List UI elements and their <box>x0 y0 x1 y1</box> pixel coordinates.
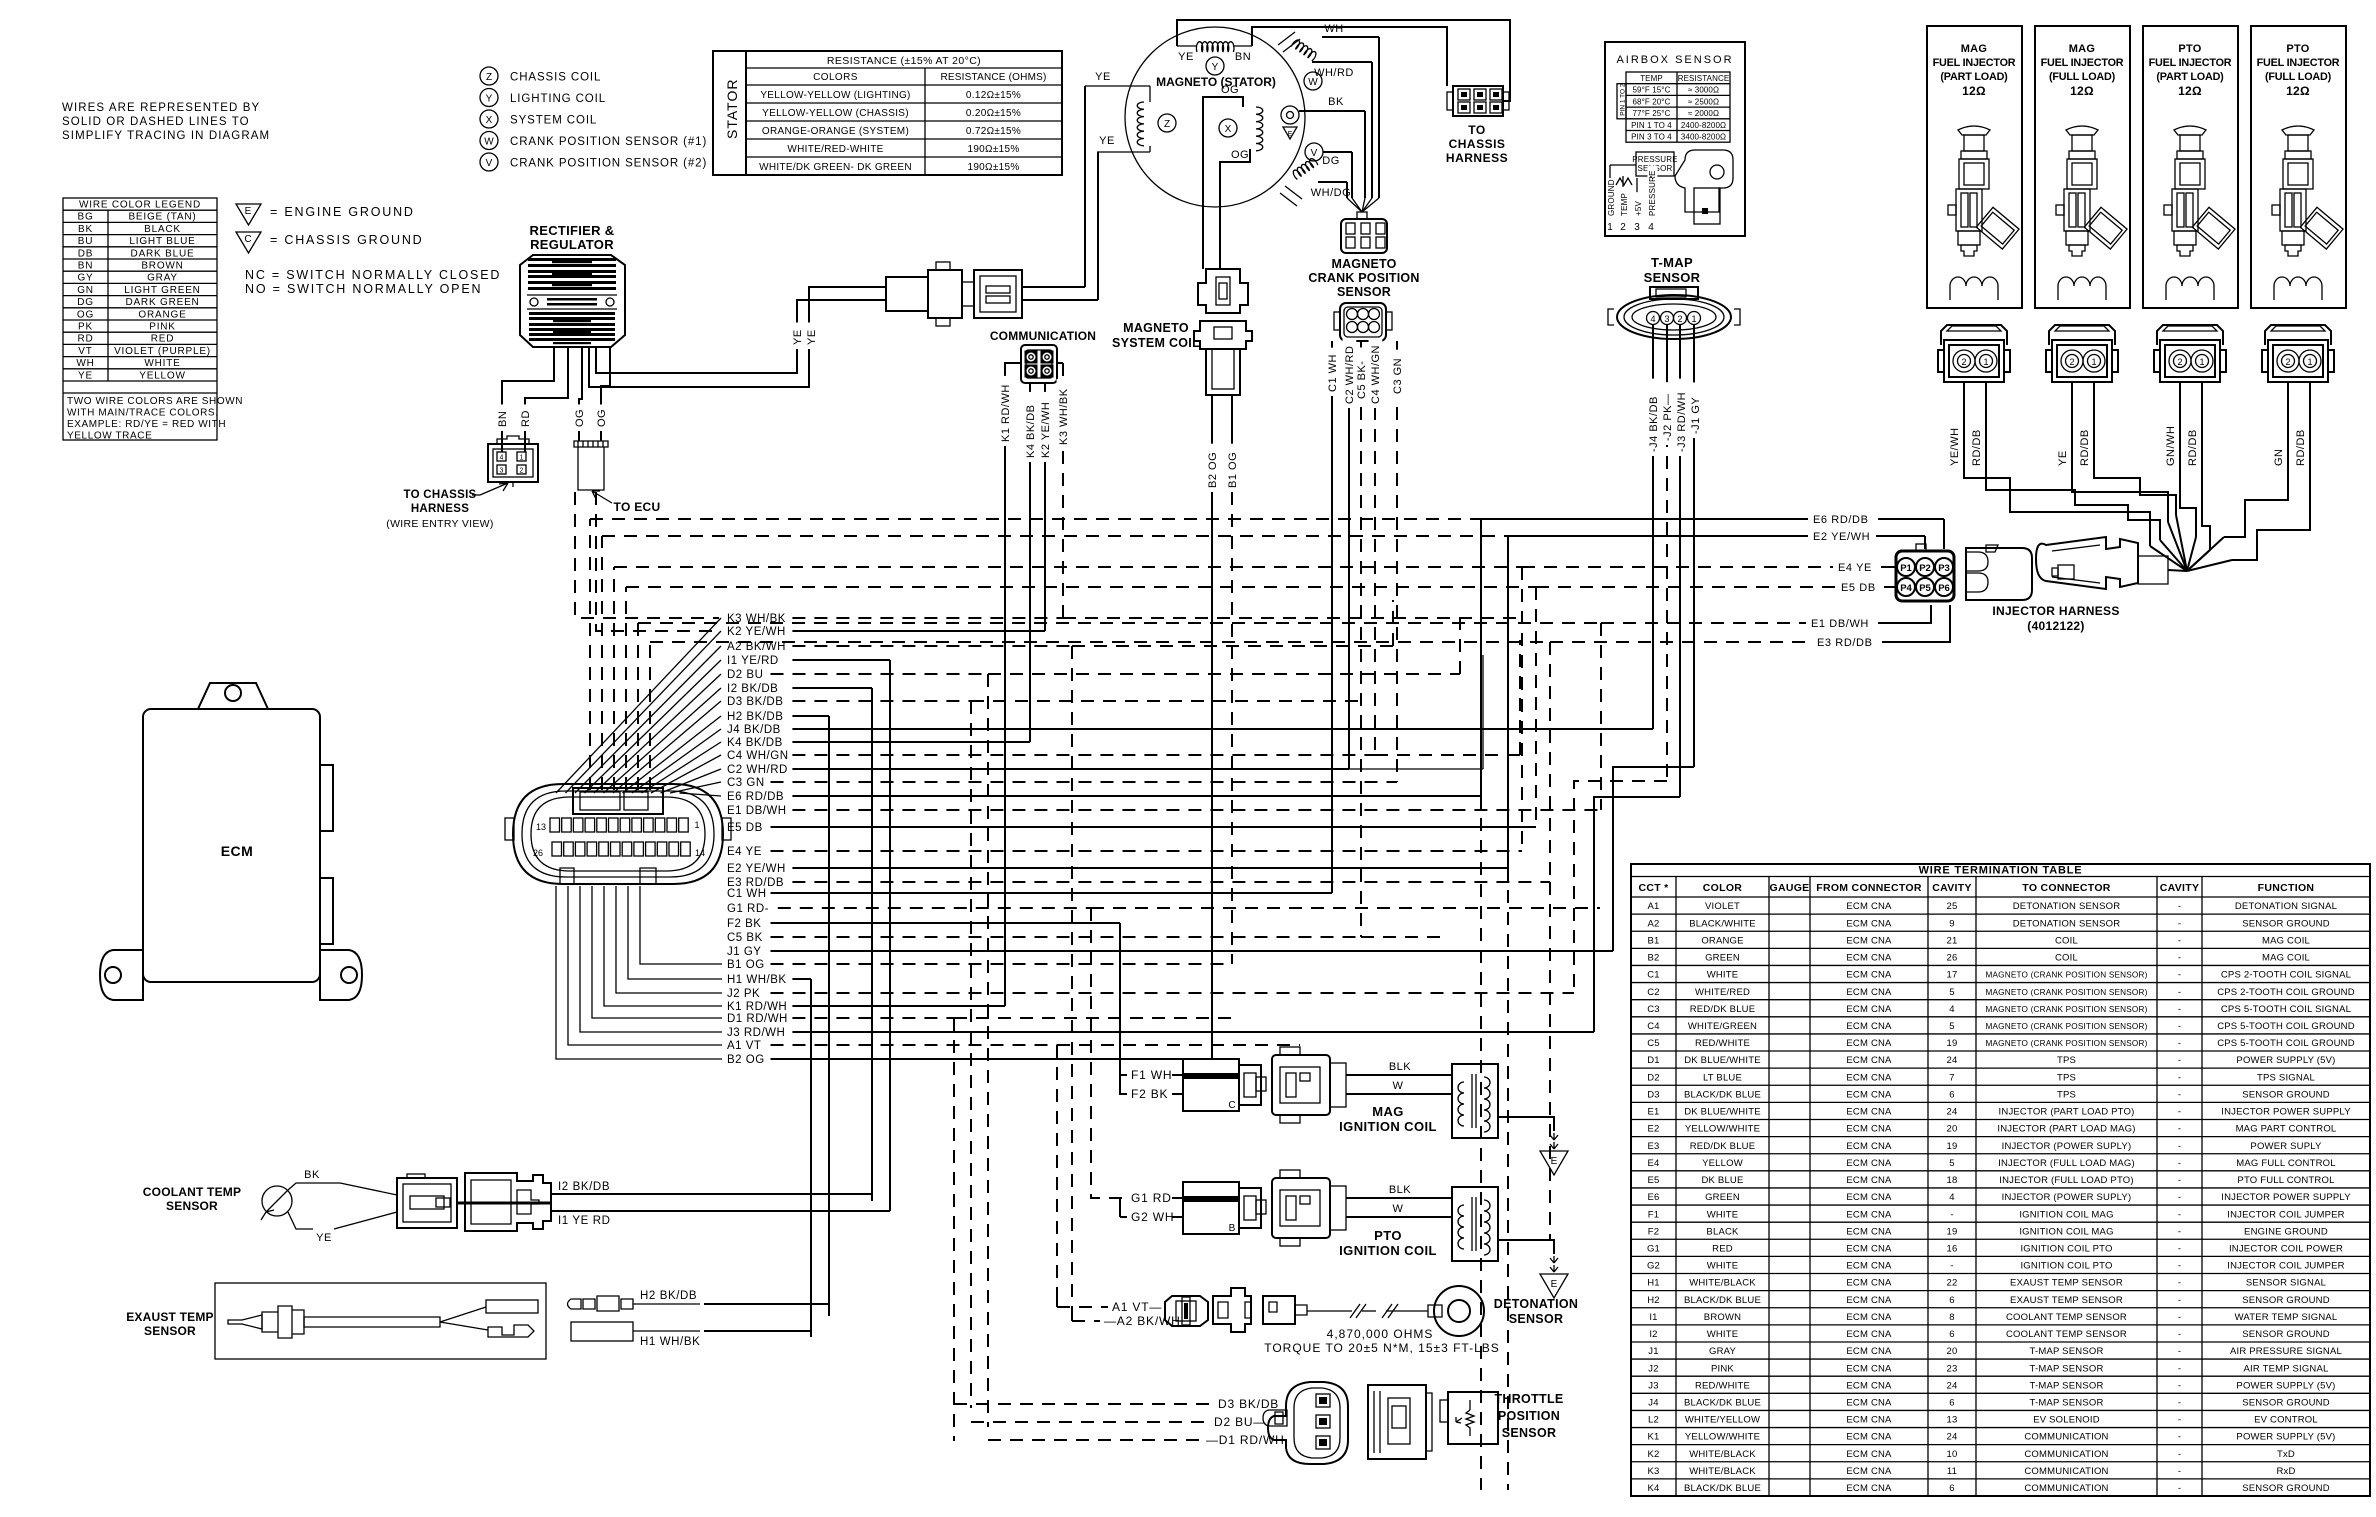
svg-text:POSITION: POSITION <box>1498 1409 1560 1423</box>
harness fan <box>2168 570 2187 571</box>
svg-text:DG: DG <box>1322 155 1340 167</box>
svg-text:2: 2 <box>2285 357 2290 367</box>
svg-text:WHITE/GREEN: WHITE/GREEN <box>1688 1021 1757 1032</box>
svg-text:TWO WIRE COLORS ARE SHOWN: TWO WIRE COLORS ARE SHOWN <box>67 396 243 407</box>
svg-text:5: 5 <box>1949 1158 1954 1169</box>
svg-text:≈ 2500Ω: ≈ 2500Ω <box>1688 97 1719 106</box>
svg-text:GRAY: GRAY <box>1709 1346 1736 1357</box>
svg-text:TO: TO <box>1468 123 1485 137</box>
svg-text:INJECTOR (FULL LOAD PTO): INJECTOR (FULL LOAD PTO) <box>1999 1175 2133 1186</box>
svg-text:OG: OG <box>574 409 586 427</box>
svg-text:J2 PK: J2 PK <box>727 988 760 1000</box>
svg-text:E5 DB: E5 DB <box>1841 582 1876 594</box>
svg-text:PINK: PINK <box>1711 1363 1734 1374</box>
svg-text:SYSTEM COIL: SYSTEM COIL <box>510 115 597 127</box>
svg-text:PTO: PTO <box>1374 1228 1402 1243</box>
svg-text:D2 BU—: D2 BU— <box>1214 1415 1266 1429</box>
svg-text:AIR TEMP SIGNAL: AIR TEMP SIGNAL <box>2243 1363 2328 1374</box>
svg-text:-: - <box>2178 1021 2181 1032</box>
svg-text:INJECTOR (PART LOAD MAG): INJECTOR (PART LOAD MAG) <box>1997 1124 2135 1135</box>
svg-text:ECM CNA: ECM CNA <box>1846 1209 1892 1220</box>
svg-text:8: 8 <box>1949 1312 1954 1323</box>
svg-text:C3 GN: C3 GN <box>727 777 765 789</box>
svg-text:PIN 3 TO 4: PIN 3 TO 4 <box>1631 133 1672 142</box>
svg-text:G1 RD: G1 RD <box>1131 1191 1172 1205</box>
svg-text:C2 WH/RD: C2 WH/RD <box>727 764 788 776</box>
svg-text:IGNITION COIL MAG: IGNITION COIL MAG <box>2019 1209 2113 1220</box>
svg-text:4,870,000 OHMS: 4,870,000 OHMS <box>1327 1327 1434 1341</box>
svg-text:RD/DB: RD/DB <box>2295 429 2307 466</box>
svg-text:BN: BN <box>78 261 94 272</box>
svg-text:I1: I1 <box>1649 1312 1657 1323</box>
svg-text:26: 26 <box>533 848 543 858</box>
svg-text:24: 24 <box>1947 1107 1958 1118</box>
svg-text:SENSOR: SENSOR <box>1337 285 1391 299</box>
svg-text:POWER SUPPLY (5V): POWER SUPPLY (5V) <box>2236 1055 2335 1066</box>
svg-text:-: - <box>2178 1226 2181 1237</box>
svg-text:RED/DK BLUE: RED/DK BLUE <box>1690 1004 1756 1015</box>
svg-text:LIGHTING COIL: LIGHTING COIL <box>510 93 606 105</box>
svg-text:(PART LOAD): (PART LOAD) <box>2156 71 2224 83</box>
svg-text:C4 WH/GN: C4 WH/GN <box>1370 345 1382 404</box>
svg-text:2400-8200Ω: 2400-8200Ω <box>1681 121 1726 130</box>
svg-text:B1 OG: B1 OG <box>727 959 765 971</box>
ECM box <box>143 709 320 982</box>
svg-text:J3 RD/WH: J3 RD/WH <box>727 1027 785 1039</box>
svg-text:BROWN: BROWN <box>141 261 183 272</box>
svg-text:FUNCTION: FUNCTION <box>2258 882 2315 894</box>
svg-text:EXAMPLE: RD/YE = RED WITH: EXAMPLE: RD/YE = RED WITH <box>67 419 226 430</box>
svg-text:STATOR: STATOR <box>724 79 740 139</box>
svg-text:IGNITION COIL PTO: IGNITION COIL PTO <box>2020 1243 2112 1254</box>
svg-text:-: - <box>1950 1261 1953 1272</box>
svg-text:D2 BU: D2 BU <box>727 669 763 681</box>
detonation sensor <box>1056 1300 1058 1307</box>
svg-text:ORANGE: ORANGE <box>1701 935 1743 946</box>
svg-text:DB: DB <box>78 248 94 259</box>
svg-text:INJECTOR (FULL LOAD MAG): INJECTOR (FULL LOAD MAG) <box>1998 1158 2135 1169</box>
svg-text:COLORS: COLORS <box>813 72 858 83</box>
svg-text:C: C <box>244 234 251 245</box>
svg-text:TxD: TxD <box>2277 1449 2295 1460</box>
svg-text:J1: J1 <box>1648 1346 1658 1357</box>
svg-text:X: X <box>486 115 493 126</box>
svg-text:BN: BN <box>1235 51 1251 63</box>
svg-text:G1: G1 <box>1647 1243 1660 1254</box>
injector harness P connector <box>1896 551 1954 601</box>
svg-text:GN: GN <box>2273 449 2285 467</box>
svg-text:L2: L2 <box>1648 1415 1659 1426</box>
svg-text:ECM CNA: ECM CNA <box>1846 1329 1892 1340</box>
injector connector 4 <box>2262 325 2334 382</box>
svg-text:ECM CNA: ECM CNA <box>1846 1261 1892 1272</box>
svg-text:24: 24 <box>1947 1432 1958 1443</box>
svg-text:P6: P6 <box>1938 583 1950 594</box>
svg-text:C3: C3 <box>1647 1004 1660 1015</box>
svg-text:YELLOW-YELLOW (CHASSIS): YELLOW-YELLOW (CHASSIS) <box>762 108 909 119</box>
svg-text:4: 4 <box>1650 314 1655 324</box>
wire termination table <box>1631 864 2370 1496</box>
svg-text:ECM CNA: ECM CNA <box>1846 1295 1892 1306</box>
injector box 4 <box>2251 26 2346 308</box>
svg-text:OG: OG <box>1221 84 1239 96</box>
svg-text:≈ 2000Ω: ≈ 2000Ω <box>1688 109 1719 118</box>
svg-text:3: 3 <box>1664 314 1669 324</box>
svg-text:C1: C1 <box>1647 970 1660 981</box>
svg-text:E3: E3 <box>1647 1141 1659 1152</box>
svg-text:P3: P3 <box>1938 563 1950 574</box>
svg-text:J4: J4 <box>1648 1398 1658 1409</box>
svg-text:W: W <box>484 137 494 148</box>
svg-text:17: 17 <box>1947 970 1958 981</box>
svg-text:OG: OG <box>77 309 94 320</box>
svg-text:190Ω±15%: 190Ω±15% <box>967 162 1019 173</box>
svg-text:YE: YE <box>1099 135 1115 147</box>
svg-text:INJECTOR POWER SUPPLY: INJECTOR POWER SUPPLY <box>2221 1192 2351 1203</box>
svg-text:B1 OG: B1 OG <box>1227 452 1239 488</box>
svg-text:I2: I2 <box>1649 1329 1657 1340</box>
svg-text:MAGNETO: MAGNETO <box>1331 257 1396 271</box>
throttle position sensor <box>954 1403 1214 1405</box>
svg-text:DETONATION: DETONATION <box>1494 1297 1578 1311</box>
svg-text:YELLOW TRACE: YELLOW TRACE <box>67 431 152 442</box>
svg-text:-: - <box>2178 1261 2181 1272</box>
svg-text:RESISTANCE (OHMS): RESISTANCE (OHMS) <box>941 72 1047 83</box>
svg-text:D1 RD/WH: D1 RD/WH <box>727 1013 788 1025</box>
svg-text:RED/DK BLUE: RED/DK BLUE <box>1690 1141 1756 1152</box>
svg-text:H1 WH/BK: H1 WH/BK <box>640 1336 700 1348</box>
to ECU connector <box>574 441 608 490</box>
svg-text:WHITE: WHITE <box>1707 1329 1739 1340</box>
YE wires rectifier to connector <box>596 300 886 373</box>
svg-text:YE: YE <box>1178 51 1194 63</box>
svg-text:A1 VT—: A1 VT— <box>1112 1300 1162 1314</box>
svg-text:BLACK/WHITE: BLACK/WHITE <box>1689 918 1756 929</box>
svg-text:WHITE/BLACK: WHITE/BLACK <box>1689 1466 1756 1477</box>
svg-text:EXAUST TEMP: EXAUST TEMP <box>126 1310 214 1324</box>
svg-text:GREEN: GREEN <box>1705 1192 1740 1203</box>
svg-text:-: - <box>2178 918 2181 929</box>
svg-text:SYSTEM COIL: SYSTEM COIL <box>1112 336 1200 350</box>
svg-text:ECM CNA: ECM CNA <box>1846 1226 1892 1237</box>
svg-text:ECM CNA: ECM CNA <box>1846 1175 1892 1186</box>
svg-text:-: - <box>2178 1312 2181 1323</box>
svg-text:25: 25 <box>1947 901 1958 912</box>
svg-text:RED: RED <box>1712 1243 1733 1254</box>
svg-text:-: - <box>2178 1415 2181 1426</box>
svg-text:W: W <box>1393 1080 1404 1092</box>
svg-text:FUEL INJECTOR: FUEL INJECTOR <box>2041 57 2124 69</box>
svg-text:P2: P2 <box>1919 563 1931 574</box>
svg-text:REGULATOR: REGULATOR <box>530 237 614 252</box>
svg-text:DK BLUE/WHITE: DK BLUE/WHITE <box>1684 1107 1761 1118</box>
svg-text:-: - <box>2178 1449 2181 1460</box>
svg-text:LIGHT GREEN: LIGHT GREEN <box>124 285 200 296</box>
svg-text:-: - <box>1950 1209 1953 1220</box>
svg-text:-: - <box>2178 1398 2181 1409</box>
svg-text:-: - <box>2178 901 2181 912</box>
svg-text:FUEL INJECTOR: FUEL INJECTOR <box>2257 57 2340 69</box>
svg-text:190Ω±15%: 190Ω±15% <box>967 144 1019 155</box>
svg-text:GY: GY <box>77 273 93 284</box>
svg-text:WIRES ARE REPRESENTED BY: WIRES ARE REPRESENTED BY <box>62 102 260 114</box>
svg-text:-: - <box>2178 970 2181 981</box>
svg-text:WHITE/BLACK: WHITE/BLACK <box>1689 1449 1756 1460</box>
svg-text:WHITE: WHITE <box>1707 1209 1739 1220</box>
svg-text:DK BLUE/WHITE: DK BLUE/WHITE <box>1684 1055 1761 1066</box>
svg-text:INJECTOR (POWER SUPLY): INJECTOR (POWER SUPLY) <box>2002 1141 2132 1152</box>
svg-text:CRANK POSITION: CRANK POSITION <box>1308 271 1419 285</box>
svg-text:SENSOR GROUND: SENSOR GROUND <box>2242 1295 2330 1306</box>
svg-text:TO CHASSIS: TO CHASSIS <box>403 489 476 501</box>
svg-text:1: 1 <box>2199 357 2204 367</box>
wire color legend table <box>63 198 217 440</box>
communication wires K <box>1005 363 1021 1006</box>
svg-text:CRANK POSITION SENSOR (#2): CRANK POSITION SENSOR (#2) <box>510 158 707 170</box>
svg-text:ECM CNA: ECM CNA <box>1846 1141 1892 1152</box>
svg-text:G2: G2 <box>1647 1261 1660 1272</box>
svg-text:F1: F1 <box>1648 1209 1660 1220</box>
svg-text:PINK: PINK <box>149 322 176 333</box>
svg-text:BLACK/DK BLUE: BLACK/DK BLUE <box>1684 1398 1761 1409</box>
magneto CPS connector <box>1341 212 1387 253</box>
injector box 1 <box>1927 26 2022 308</box>
svg-text:F2: F2 <box>1648 1226 1660 1237</box>
svg-text:11: 11 <box>1947 1466 1957 1477</box>
svg-text:-: - <box>2178 1243 2181 1254</box>
svg-text:WHITE: WHITE <box>1707 1261 1739 1272</box>
injector wire 1 <box>1964 382 2150 546</box>
svg-text:18: 18 <box>1947 1175 1958 1186</box>
exhaust sensor terminals <box>568 1296 634 1311</box>
svg-text:TPS: TPS <box>2057 1055 2076 1066</box>
svg-text:BK: BK <box>1328 96 1344 108</box>
svg-text:THROTTLE: THROTTLE <box>1494 1392 1563 1406</box>
svg-text:GROUND: GROUND <box>1607 179 1616 216</box>
svg-text:COMMUNICATION: COMMUNICATION <box>2024 1466 2108 1477</box>
svg-text:GREEN: GREEN <box>1705 953 1740 964</box>
4-pin to-chassis connector <box>488 444 538 482</box>
svg-text:E4: E4 <box>1647 1158 1659 1169</box>
injector box 2 <box>2035 26 2130 308</box>
svg-text:-: - <box>2178 987 2181 998</box>
svg-text:PIN 1 TO 4: PIN 1 TO 4 <box>1631 121 1672 130</box>
svg-text:0.20Ω±15%: 0.20Ω±15% <box>966 108 1021 119</box>
svg-text:H1: H1 <box>1647 1278 1660 1289</box>
svg-text:D3 BK/DB: D3 BK/DB <box>727 696 783 708</box>
svg-text:19: 19 <box>1947 1038 1958 1049</box>
svg-text:ECM CNA: ECM CNA <box>1846 1004 1892 1015</box>
svg-text:BG: BG <box>77 212 93 223</box>
svg-text:-: - <box>2178 1158 2181 1169</box>
svg-text:14: 14 <box>695 848 705 858</box>
svg-text:1: 1 <box>694 820 699 830</box>
svg-text:C1 WH: C1 WH <box>1327 354 1339 392</box>
svg-text:BLACK: BLACK <box>1706 1226 1739 1237</box>
svg-text:-: - <box>2178 953 2181 964</box>
svg-text:I1 YE/RD: I1 YE/RD <box>727 655 779 667</box>
CPS wires C <box>1331 341 1333 893</box>
svg-text:BK: BK <box>304 1169 320 1181</box>
wires to chassis harness <box>1177 20 1510 101</box>
svg-text:CAVITY: CAVITY <box>1932 882 1972 894</box>
svg-text:E2 YE/WH: E2 YE/WH <box>727 863 786 875</box>
svg-text:D3 BK/DB: D3 BK/DB <box>1218 1397 1279 1411</box>
svg-text:E1: E1 <box>1647 1107 1659 1118</box>
svg-text:ECM CNA: ECM CNA <box>1846 901 1892 912</box>
svg-text:BN: BN <box>497 411 509 427</box>
svg-text:EV SOLENOID: EV SOLENOID <box>2033 1415 2100 1426</box>
svg-text:19: 19 <box>1947 1226 1958 1237</box>
svg-text:LIGHT BLUE: LIGHT BLUE <box>129 236 195 247</box>
svg-text:12Ω: 12Ω <box>2178 84 2202 98</box>
svg-text:(4012122): (4012122) <box>2027 619 2084 633</box>
svg-text:Z: Z <box>486 72 492 83</box>
svg-text:26: 26 <box>1947 953 1958 964</box>
svg-text:ECM CNA: ECM CNA <box>1846 1055 1892 1066</box>
svg-text:FUEL INJECTOR: FUEL INJECTOR <box>2149 57 2232 69</box>
svg-text:DG: DG <box>77 297 94 308</box>
svg-text:YE: YE <box>2057 450 2069 466</box>
svg-text:CPS 2-TOOTH COIL SIGNAL: CPS 2-TOOTH COIL SIGNAL <box>2221 970 2351 981</box>
svg-text:E2: E2 <box>1647 1124 1659 1135</box>
svg-text:B1: B1 <box>1647 935 1659 946</box>
svg-text:ECM CNA: ECM CNA <box>1846 1243 1892 1254</box>
svg-text:TPS: TPS <box>2057 1072 2076 1083</box>
injector connector 1 <box>1938 325 2010 382</box>
svg-text:ECM CNA: ECM CNA <box>1846 953 1892 964</box>
svg-text:COOLANT TEMP SENSOR: COOLANT TEMP SENSOR <box>2006 1312 2127 1323</box>
svg-text:MAG: MAG <box>2069 43 2096 55</box>
svg-text:X: X <box>1225 124 1232 135</box>
svg-text:J1 GY: J1 GY <box>727 946 761 958</box>
svg-text:POWER SUPLY: POWER SUPLY <box>2250 1141 2322 1152</box>
svg-text:INJECTOR COIL POWER: INJECTOR COIL POWER <box>2229 1243 2343 1254</box>
svg-text:A1 VT: A1 VT <box>727 1040 761 1052</box>
svg-text:(FULL LOAD): (FULL LOAD) <box>2049 71 2116 83</box>
svg-text:K1: K1 <box>1647 1432 1659 1443</box>
svg-text:-: - <box>2178 1380 2181 1391</box>
svg-text:4: 4 <box>1949 1192 1954 1203</box>
svg-text:C5 BK: C5 BK <box>727 932 763 944</box>
svg-text:VIOLET (PURPLE): VIOLET (PURPLE) <box>114 346 211 357</box>
svg-text:-: - <box>2178 1329 2181 1340</box>
svg-text:-: - <box>2178 935 2181 946</box>
rectifier output wires <box>502 347 554 452</box>
svg-text:DETONATION SENSOR: DETONATION SENSOR <box>2013 918 2121 929</box>
svg-text:2: 2 <box>1677 314 1682 324</box>
svg-text:20: 20 <box>1947 1124 1958 1135</box>
svg-text:-: - <box>2178 1363 2181 1374</box>
svg-text:D1: D1 <box>1647 1055 1660 1066</box>
svg-text:INJECTOR COIL JUMPER: INJECTOR COIL JUMPER <box>2227 1209 2345 1220</box>
svg-text:ECM CNA: ECM CNA <box>1846 1124 1892 1135</box>
svg-text:T-MAP SENSOR: T-MAP SENSOR <box>2029 1346 2103 1357</box>
svg-text:12Ω: 12Ω <box>2070 84 2094 98</box>
svg-text:WHITE/DK GREEN- DK GREEN: WHITE/DK GREEN- DK GREEN <box>759 162 912 173</box>
harness E lines <box>1481 518 1808 520</box>
svg-text:MAG: MAG <box>1372 1104 1404 1119</box>
svg-text:ORANGE: ORANGE <box>138 309 186 320</box>
svg-text:2: 2 <box>2177 357 2182 367</box>
injector wire 2 <box>1986 382 2160 540</box>
svg-text:EV CONTROL: EV CONTROL <box>2254 1415 2318 1426</box>
svg-text:59°F 15°C: 59°F 15°C <box>1633 86 1671 95</box>
svg-text:WH: WH <box>1324 23 1343 35</box>
svg-text:YE/WH: YE/WH <box>1949 427 1961 466</box>
svg-text:10: 10 <box>1947 1449 1958 1460</box>
svg-text:F2 BK: F2 BK <box>727 918 761 930</box>
svg-text:C4 WH/GN: C4 WH/GN <box>727 750 789 762</box>
svg-text:MAGNETO (CRANK POSITION SENSOR: MAGNETO (CRANK POSITION SENSOR) <box>1985 1005 2147 1014</box>
svg-text:ECM CNA: ECM CNA <box>1846 1449 1892 1460</box>
svg-text:E6: E6 <box>1647 1192 1659 1203</box>
svg-text:24: 24 <box>1947 1055 1958 1066</box>
svg-text:-: - <box>2178 1107 2181 1118</box>
svg-text:E5: E5 <box>1647 1175 1659 1186</box>
svg-text:COIL: COIL <box>2055 953 2078 964</box>
svg-text:RED/WHITE: RED/WHITE <box>1695 1038 1750 1049</box>
svg-text:-: - <box>2178 1175 2181 1186</box>
svg-text:COOLANT TEMP SENSOR: COOLANT TEMP SENSOR <box>2006 1329 2127 1340</box>
svg-text:IGNITION COIL PTO: IGNITION COIL PTO <box>2020 1261 2112 1272</box>
svg-text:SENSOR GROUND: SENSOR GROUND <box>2242 918 2330 929</box>
svg-text:C1 WH: C1 WH <box>727 888 767 900</box>
svg-text:E5 DB: E5 DB <box>727 822 763 834</box>
svg-text:CRANK POSITION SENSOR (#1): CRANK POSITION SENSOR (#1) <box>510 136 707 148</box>
svg-text:(FULL LOAD): (FULL LOAD) <box>2265 71 2332 83</box>
svg-text:ECM CNA: ECM CNA <box>1846 1021 1892 1032</box>
svg-text:RED/WHITE: RED/WHITE <box>1695 1380 1750 1391</box>
svg-text:ORANGE-ORANGE (SYSTEM): ORANGE-ORANGE (SYSTEM) <box>762 126 909 137</box>
injector wire 8 <box>2232 382 2310 560</box>
svg-text:21: 21 <box>1947 935 1958 946</box>
svg-text:-J3 RD/WH: -J3 RD/WH <box>1676 392 1688 452</box>
wire mesh extensions <box>1072 645 1393 647</box>
svg-text:-J2 PK—: -J2 PK— <box>1662 393 1674 441</box>
svg-text:COMMUNICATION: COMMUNICATION <box>2024 1483 2108 1494</box>
svg-text:WIRE TERMINATION TABLE: WIRE TERMINATION TABLE <box>1919 865 2083 877</box>
svg-text:SENSOR: SENSOR <box>1502 1426 1557 1440</box>
svg-text:1: 1 <box>2091 357 2096 367</box>
svg-text:RD: RD <box>520 410 532 427</box>
svg-text:K4 BK/DB: K4 BK/DB <box>1025 404 1037 458</box>
svg-text:WIRE COLOR LEGEND: WIRE COLOR LEGEND <box>79 200 201 211</box>
chassis coil Z <box>1137 102 1144 146</box>
svg-text:MAG: MAG <box>1961 43 1988 55</box>
svg-text:6: 6 <box>1949 1295 1954 1306</box>
svg-text:ECM CNA: ECM CNA <box>1846 1398 1892 1409</box>
injector wire 7 <box>2224 382 2288 537</box>
svg-text:B: B <box>1229 1223 1236 1234</box>
svg-text:13: 13 <box>1947 1415 1958 1426</box>
injector wire 3 <box>2072 382 2168 522</box>
svg-text:WHITE: WHITE <box>1707 970 1739 981</box>
svg-text:-: - <box>2178 1038 2181 1049</box>
svg-text:GRAY: GRAY <box>147 273 178 284</box>
svg-text:T-MAP SENSOR: T-MAP SENSOR <box>2029 1380 2103 1391</box>
svg-text:19: 19 <box>1947 1141 1958 1152</box>
svg-text:YE: YE <box>78 370 93 381</box>
magneto stator circle <box>1125 27 1305 207</box>
injector harness bodies <box>1966 537 2168 600</box>
svg-text:ECM CNA: ECM CNA <box>1846 1346 1892 1357</box>
svg-text:INJECTOR (PART LOAD PTO): INJECTOR (PART LOAD PTO) <box>1999 1107 2135 1118</box>
svg-text:SENSOR SIGNAL: SENSOR SIGNAL <box>2246 1278 2326 1289</box>
svg-text:-: - <box>2178 1209 2181 1220</box>
stator wires to CPS connector <box>1322 36 1379 38</box>
svg-text:WITH MAIN/TRACE COLORS.: WITH MAIN/TRACE COLORS. <box>67 408 219 419</box>
